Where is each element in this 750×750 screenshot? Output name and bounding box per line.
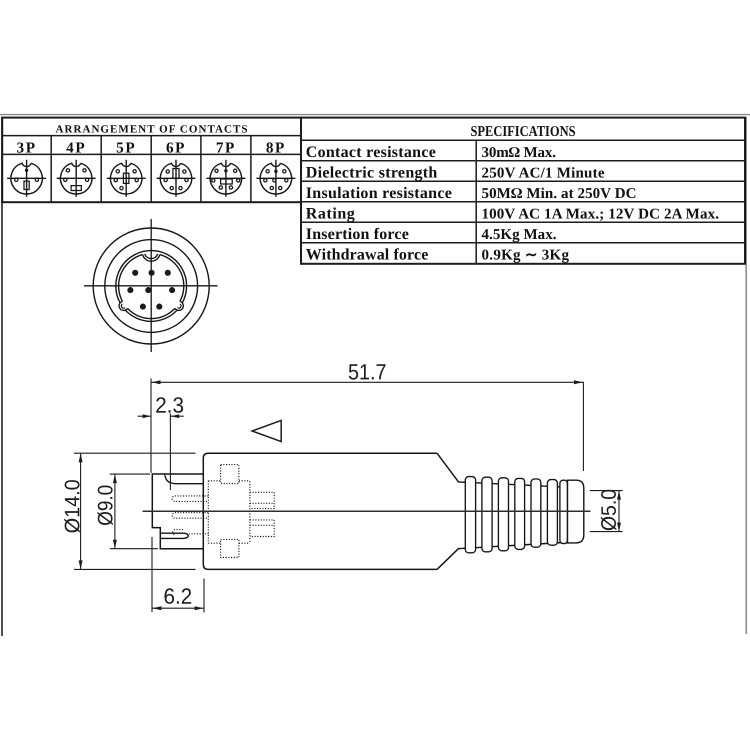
dim dia5 top arrowhead [617,491,621,500]
svg-text:4.5Kg Max.: 4.5Kg Max. [482,227,557,243]
hidden insert left wall [207,481,209,543]
hidden insert right wall [249,481,251,543]
specifications row line 4 [301,221,745,223]
hidden terminal ladder upper [250,492,274,508]
svg-text:250V AC/1 Minute: 250V AC/1 Minute [482,165,605,181]
connector diagram 5P [107,160,146,197]
arrangement column line 5 [250,136,252,203]
dim dia14 bottom arrowhead [79,560,83,569]
hidden insert bottom square [221,539,239,557]
hidden insert top square [221,465,239,484]
hidden pin C tail [189,533,209,535]
front view lower-right notch [175,301,185,312]
dim 51.7 text [349,364,386,379]
svg-text:0.9Kg ∼ 3Kg: 0.9Kg ∼ 3Kg [482,247,570,263]
hidden pin A outline [172,496,208,502]
strain relief rib 4 [515,478,525,549]
frame top border [0,114,750,116]
dim 51.7 right arrowhead [574,380,583,384]
svg-text:5P: 5P [116,139,136,156]
dim 2.3 right extension line [169,414,171,491]
dim 6.2 right extension line [203,579,205,613]
visible bottom pin fork [160,533,188,538]
hidden insert bottom shelf left [208,542,220,544]
dim 2.3 text [156,397,183,413]
specifications row line 2 [301,180,745,182]
svg-text:8P: 8P [266,139,286,156]
dim 6.2 text [165,588,192,604]
hidden insert top shelf right [239,480,250,482]
svg-text:Insertion force: Insertion force [306,226,409,243]
svg-text:Rating: Rating [306,205,355,222]
dim dia14 bottom extension line [74,568,196,570]
dim 6.2 right arrowhead [195,606,204,610]
specifications column divider [475,140,477,263]
arrangement column line 1 [50,136,52,203]
front view shell outer circle [116,251,187,322]
front view pins [127,270,175,310]
front view shell inner circle [119,255,184,319]
front view second circle [105,240,198,333]
specifications header separator [301,139,745,141]
svg-text:3P: 3P [17,139,37,156]
hidden insert bottom shelf right [239,542,250,544]
strain relief rib 6 [547,480,557,546]
dim dia9 bottom arrowhead [113,540,117,549]
arrangement column line 2 [100,136,102,203]
arrangement column line 3 [150,136,152,203]
dim dia14 text [64,480,80,533]
hidden pin B outline [172,513,208,519]
dim 6.2 line [152,607,203,609]
specifications row line 3 [301,201,745,203]
hidden terminal ladder lower [250,520,274,537]
svg-text:30mΩ Max.: 30mΩ Max. [482,145,557,161]
dim 2.3 left arrow tail [138,415,151,417]
strain relief rib 1 [465,477,475,553]
dim dia9 line [114,475,116,549]
dim dia5 text [601,490,617,531]
dim 51.7 left extension line [150,379,152,473]
dim 51.7 left arrowhead [152,380,161,384]
dim dia14 line [80,454,82,569]
front view top notch outer arc [143,255,160,262]
strain relief rib 3 [498,478,508,551]
arrangement table outer border [2,118,301,203]
dim dia5 bottom arrowhead [617,523,621,532]
strain relief rib 5 [531,479,541,547]
svg-text:ARRANGEMENT OF CONTACTS: ARRANGEMENT OF CONTACTS [56,124,248,136]
front view top notch inner arc [145,254,158,258]
arrangement header separator [2,135,301,137]
svg-text:Contact resistance: Contact resistance [306,144,436,161]
connector diagram 4P [57,160,96,197]
connector diagram 7P [206,160,245,197]
svg-text:50MΩ Min. at 250V DC: 50MΩ Min. at 250V DC [482,186,637,202]
svg-text:7P: 7P [216,139,236,156]
strain relief rib 7 [560,480,568,543]
dim 51.7 right extension line [582,382,584,471]
dim 51.7 line [152,381,584,383]
strain relief end cap [568,480,584,543]
svg-text:SPECIFICATIONS: SPECIFICATIONS [471,124,576,140]
strain relief rib 2 [482,477,492,552]
main centerline [143,510,591,512]
arrangement column line 4 [200,136,202,203]
dim dia14 top arrowhead [79,453,83,462]
dim dia5 extension bottom [590,531,623,533]
barrel shield fold curve [165,474,204,484]
front view outer circle [93,228,209,344]
dim dia9 text [97,486,113,526]
dim dia14 top extension line [74,452,196,454]
arrangement label row separator [2,153,301,155]
connector diagram 6P [157,160,196,197]
frame left border [1,117,3,636]
specifications table outer border [301,118,745,264]
dim dia5 extension top [590,490,623,492]
front view lower-left notch [117,301,127,312]
dim 2.3 right arrowhead [171,414,179,418]
svg-text:Insulation resistance: Insulation resistance [306,185,452,202]
front view vertical centerline [150,219,152,352]
dim dia9 top arrowhead [113,474,117,483]
svg-text:4P: 4P [66,139,86,156]
connector body [203,453,458,569]
dim 2.3 left arrowhead [143,414,151,418]
svg-text:Withdrawal force: Withdrawal force [306,246,429,263]
svg-text:Dielectric strength: Dielectric strength [306,164,438,181]
connector diagram 8P [256,160,295,197]
specifications row line 1 [301,160,745,162]
svg-text:6P: 6P [166,139,186,156]
dim dia9 extension top [110,473,150,475]
front view horizontal centerline [84,285,218,287]
dim dia9 extension bottom [110,548,158,550]
hidden pin C upper edge [173,530,183,535]
svg-text:100V AC 1A Max.; 12V DC 2A Max: 100V AC 1A Max.; 12V DC 2A Max. [482,206,720,222]
specifications row line 5 [301,242,745,244]
revision triangle marker [252,420,281,441]
hidden insert top shelf left [208,480,220,482]
dim dia5 line [618,491,620,532]
dim 6.2 left arrowhead [152,606,161,610]
dim 6.2 left extension line [151,537,153,612]
dim 2.3 right arrow tail [171,415,184,417]
frame right border [745,117,747,634]
connector diagram 3P [7,160,46,197]
strain relief core [458,482,575,549]
metal barrel outline [152,474,203,549]
